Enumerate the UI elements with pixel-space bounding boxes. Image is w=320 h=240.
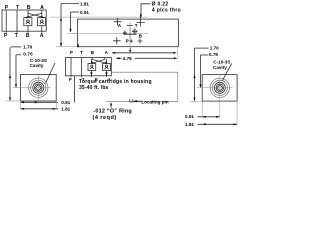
left cavity crosshair [13,74,51,99]
right front view housing outline [202,75,237,102]
svg-text:A: A [40,33,44,39]
section right cartridge [103,64,111,71]
schematic symbol enclosure [2,10,46,31]
svg-text:1.81: 1.81 [80,1,89,6]
svg-text:0.91: 0.91 [61,100,70,105]
locating pin symbol [130,99,133,102]
section pilot cross lines [91,59,107,63]
port hole cross A [114,18,122,26]
schematic right check valve envelope [38,18,46,26]
svg-text:4 plcs thru: 4 plcs thru [152,7,181,13]
note text dia 0.22 4 plcs thru [152,2,181,14]
dimension 1.70 left [9,45,33,101]
extension line at y17 [50,16,148,18]
port hole circle B [132,29,138,35]
schematic port line P [5,10,7,33]
section bottom flow arrowheads [90,72,92,75]
left bottom dim 0.91 [21,100,71,105]
svg-text:T: T [16,5,19,11]
o-ring note text [93,108,132,121]
port hole cross T [127,25,133,27]
schematic port line A [41,10,43,33]
top view vertical centerline [129,28,131,47]
dimension 1.70 right [193,46,219,101]
torque note leader [74,76,76,102]
small down arrow above 4.78 [129,48,131,53]
svg-text:Locating pin: Locating pin [141,99,168,104]
o-ring note leader [110,102,112,108]
svg-text:(4 reqd): (4 reqd) [93,115,117,121]
svg-text:0.75: 0.75 [23,52,33,58]
top view of housing [78,19,179,47]
schematic left check valve poppet [26,20,30,24]
svg-text:0.91: 0.91 [80,10,89,15]
schematic left check valve envelope [24,18,32,26]
small hole cross near P [130,39,133,42]
svg-text:P: P [126,39,129,44]
schematic pilot line right-to-B [28,13,45,17]
note leader 0.22 [140,4,150,18]
schematic right check valve poppet [40,20,44,24]
ground line under pin [106,72,178,102]
dimension 0.75 left [15,52,33,88]
svg-text:Cavity: Cavity [213,65,227,70]
section pilot stubs above cartridges [91,59,106,64]
schematic pilot arrowhead left [26,16,29,19]
locating pin leader arrow [133,100,141,102]
svg-text:-012 “O” Ring: -012 “O” Ring [93,108,132,114]
section left cartridge check [90,65,94,69]
svg-text:T: T [15,33,18,39]
section pilot arrowheads [91,61,94,64]
section port line B [91,58,93,60]
svg-text:4.78: 4.78 [123,56,132,61]
svg-text:P: P [70,50,73,55]
svg-text:T: T [80,50,83,55]
locating hole circle left [123,31,128,36]
section right cartridge check [105,65,109,69]
section port line T [80,58,82,76]
section view top labels P T B A [70,50,109,55]
svg-text:1.70: 1.70 [23,45,33,51]
svg-text:0.75: 0.75 [209,52,218,57]
svg-text:0.91: 0.91 [185,114,194,119]
svg-text:C-10-3S: C-10-3S [213,60,230,65]
left cavity circles [29,78,48,97]
cavity center cross [124,33,137,35]
label C-10-3S Cavity right [213,60,230,70]
right bottom dim 1.81 [185,122,237,127]
left bottom dim 1.81 [21,106,71,111]
svg-text:1.81: 1.81 [61,106,70,111]
svg-text:1.70: 1.70 [210,46,219,51]
right bottom dim 0.91 [185,114,220,119]
svg-text:35-40 ft. lbs: 35-40 ft. lbs [79,85,109,91]
unlabeled dimension line to extension [112,52,177,54]
svg-text:A: A [40,5,44,11]
schematic port line B [27,10,29,33]
schematic pilot arrowhead right [41,16,44,19]
extension tick at centerline [67,33,77,35]
port hole cross P [113,37,121,44]
svg-text:T: T [135,23,138,28]
section bottom labels P T B A [69,77,111,82]
svg-text:1.81: 1.81 [185,122,194,127]
down arrow at x78 [77,44,79,49]
mounting hole cross at top edge [137,14,145,27]
top view horizontal centerline [72,33,148,35]
schematic pilot line left-to-A [25,13,42,17]
schematic bottom port labels P T B A [4,33,44,39]
section bottom stubs [71,71,107,78]
dimension 4.78 [116,56,177,61]
section port line A [104,58,106,60]
section view housing outline [65,58,111,76]
svg-text:B: B [27,5,31,11]
dimension 1.81 vertical (top left) [60,1,89,46]
schematic top port labels P T B A [5,5,45,11]
section left cartridge [88,64,96,71]
svg-text:Cavity: Cavity [30,63,44,68]
extension line for 4.78 [177,47,179,59]
leader from cavity label to circle [46,63,56,84]
left view extension lines bottom [5,99,56,110]
leader from right cavity label [222,64,231,81]
dimension 0.75 right [199,52,218,88]
extension line top view bottom edge to left [56,46,78,48]
dimension 0.91 vertical (top left) [69,10,89,33]
right cavity circles [210,78,229,97]
section port line P [70,58,72,76]
right view extension lines bottom [190,99,237,125]
right cavity crosshair [197,74,233,99]
torque note text [79,79,152,91]
label C-10-3S Cavity left [30,58,47,68]
svg-text:B: B [26,33,30,39]
small hole cross right of P [138,39,143,44]
svg-text:P: P [69,77,72,82]
left front view housing outline [21,75,57,102]
svg-text:Torque cartridge in housing: Torque cartridge in housing [79,79,152,85]
schematic port line T [16,10,18,33]
